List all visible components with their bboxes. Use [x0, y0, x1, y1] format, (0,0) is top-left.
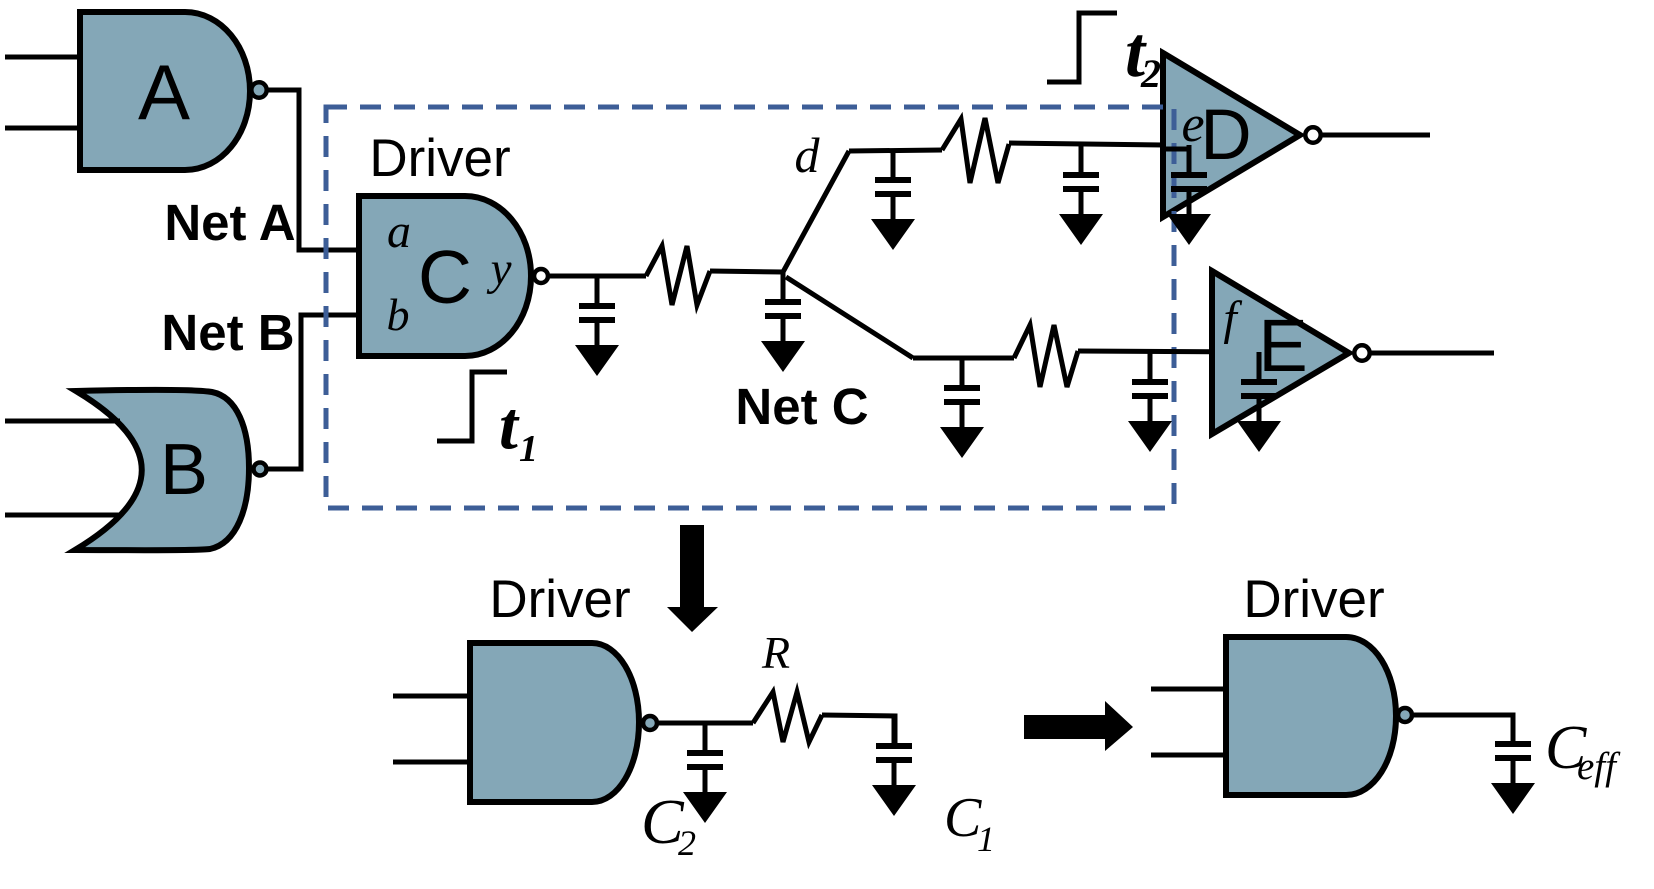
gate E output bubble [1354, 345, 1369, 360]
gate B input wire 1 [5, 419, 120, 424]
svg-text:A: A [138, 48, 190, 136]
wire Net C up to node d [783, 151, 849, 272]
gate B output bubble [254, 463, 267, 476]
svg-text:D: D [1200, 96, 1251, 175]
resistor on d branch [942, 118, 1009, 183]
gate D output bubble [1305, 127, 1320, 142]
gate C output bubble [534, 269, 548, 283]
svg-text:d: d [795, 127, 821, 183]
capacitor Ceff [1511, 714, 1516, 741]
ground near gate E input [1128, 421, 1172, 452]
gate A input wire 2 [5, 126, 80, 131]
svg-text:C: C [418, 235, 472, 319]
svg-text:a: a [387, 205, 411, 258]
svg-text:y: y [487, 243, 512, 295]
bottom-left driver input wire 2 [393, 760, 470, 765]
bottom-right driver input wire 1 [1151, 687, 1226, 692]
svg-text:B: B [160, 430, 208, 510]
bottom-right driver output bubble [1398, 708, 1412, 722]
svg-text:Driver: Driver [489, 570, 630, 629]
bottom-left driver output wire [659, 721, 753, 726]
capacitor C1 [892, 716, 897, 743]
ground at Ceff [1491, 783, 1535, 814]
gate A input wire 1 [5, 55, 80, 60]
resistor on lower branch [1014, 325, 1078, 387]
bottom-left driver input wire 1 [393, 694, 470, 699]
capacitor at Net C [781, 272, 786, 299]
capacitor near gate D input [1079, 145, 1084, 172]
bottom-left driver gate (NAND) [470, 643, 639, 802]
wire gate C output y [550, 274, 646, 279]
svg-text:E: E [1258, 304, 1307, 387]
svg-text:2: 2 [678, 823, 696, 863]
svg-text:Net B: Net B [161, 304, 294, 361]
gate C (NAND driver) [359, 196, 531, 356]
svg-text:Driver: Driver [1243, 570, 1384, 629]
wire d branch to gate D [1009, 143, 1163, 145]
capacitor C2 [703, 723, 708, 750]
svg-text:R: R [761, 627, 790, 678]
bottom-right driver gate (NAND) [1226, 637, 1396, 795]
svg-text:t: t [499, 387, 520, 463]
ground at Net C [761, 341, 805, 372]
ground at pin f [1237, 421, 1281, 452]
ground at C1 [872, 785, 916, 816]
ground on d branch [871, 219, 915, 250]
gate E (inverter) [1212, 271, 1349, 434]
gate A (NAND) [80, 12, 250, 170]
ground on lower branch [940, 427, 984, 458]
bottom-left driver output bubble [643, 716, 657, 730]
wire Net C down to lower branch [786, 277, 913, 358]
gate A output bubble [251, 82, 266, 97]
svg-text:Net A: Net A [164, 194, 295, 251]
wire Net A: gate A output to gate C input a [268, 90, 358, 250]
svg-text:2: 2 [1140, 51, 1161, 96]
resistor R [753, 692, 822, 742]
svg-text:1: 1 [977, 819, 995, 859]
dashed interconnect-model box [326, 107, 1174, 508]
wire resistor to node Net C [710, 271, 783, 272]
ground at node y [575, 345, 619, 376]
gate E output wire [1371, 351, 1494, 356]
capacitor at pin e [1187, 145, 1192, 172]
resistor y to Net C [646, 246, 710, 305]
ground at C2 [683, 792, 727, 823]
capacitor on lower branch [960, 358, 965, 385]
bottom-right driver input wire 2 [1151, 753, 1226, 758]
capacitor near gate E input [1148, 352, 1153, 379]
input step waveform t1 [437, 372, 507, 441]
svg-text:Net C: Net C [735, 378, 868, 435]
gate D output wire [1322, 133, 1430, 138]
capacitor on d branch [891, 150, 896, 177]
svg-text:b: b [387, 289, 410, 340]
wire R to C1 [822, 715, 895, 746]
gate B input wire 2 [5, 513, 122, 518]
capacitor at pin f [1257, 352, 1262, 379]
gate B (NOR) [75, 390, 249, 550]
ground near gate D input [1059, 214, 1103, 245]
wire elbow to capacitor at e [1166, 147, 1189, 152]
svg-text:1: 1 [519, 428, 538, 470]
gate D (inverter) [1163, 53, 1300, 217]
wire lower branch horizontal [913, 356, 1014, 361]
wire Net B: gate B output to gate C input b [268, 315, 358, 469]
capacitor at node y [595, 276, 600, 303]
ground at pin e [1167, 214, 1211, 245]
arrow right (model reduction) [1024, 701, 1133, 751]
svg-text:Driver: Driver [369, 129, 510, 188]
arrow down (model abstraction) [667, 525, 718, 632]
wire node d horizontal [849, 150, 942, 151]
svg-text:eff: eff [1577, 745, 1621, 788]
wire lower branch to gate E [1078, 351, 1259, 352]
bottom-right driver output wire [1414, 715, 1513, 741]
input step waveform t2 [1047, 13, 1117, 82]
